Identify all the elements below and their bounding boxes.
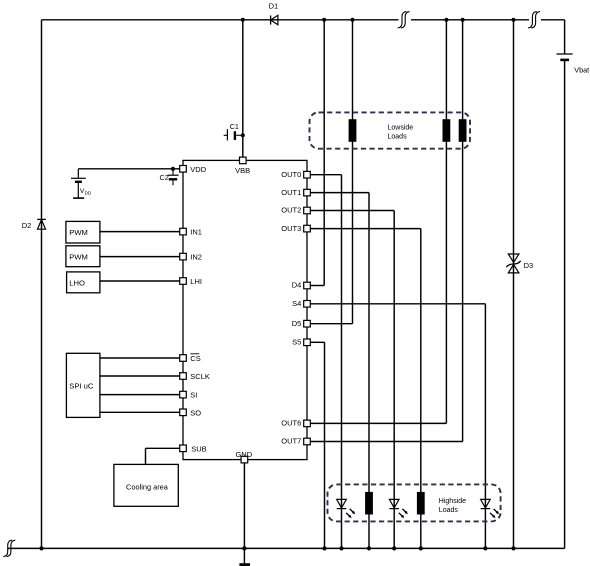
junction bottom rail D3 bbox=[511, 546, 515, 550]
capacitor C1 bbox=[224, 122, 242, 141]
diode D1 bbox=[269, 2, 279, 25]
wire VDD bbox=[78, 168, 179, 170]
svg-text:GND: GND bbox=[235, 450, 252, 459]
pin VBB bbox=[235, 157, 250, 175]
wire OUT6 net bbox=[310, 20, 446, 424]
wire OUT1 net bbox=[310, 193, 369, 549]
wire LHI bbox=[100, 280, 180, 282]
lowside load bar 1 (D5 line) bbox=[349, 119, 357, 142]
svg-text:VBB: VBB bbox=[235, 166, 250, 175]
wire OUT7 net bbox=[310, 20, 462, 442]
wire S5 net bbox=[310, 342, 324, 548]
wire S4 net bbox=[310, 304, 485, 549]
junction bottom rail left rail bbox=[39, 546, 43, 550]
svg-text:Vbat: Vbat bbox=[574, 65, 589, 74]
svg-text:S4: S4 bbox=[292, 299, 301, 308]
svg-text:OUT6: OUT6 bbox=[281, 419, 301, 428]
pin SO bbox=[180, 408, 202, 417]
pin VDD bbox=[180, 165, 207, 174]
pin OUT7 bbox=[281, 437, 310, 446]
junction bottom rail S5 bbox=[322, 546, 326, 550]
supply VDD source bbox=[71, 169, 92, 198]
wire bottom rail bbox=[8, 547, 565, 549]
svg-text:PWM: PWM bbox=[69, 252, 88, 261]
junction bottom rail GND bbox=[242, 546, 246, 550]
wire SO bbox=[100, 411, 180, 413]
wire IN2 bbox=[100, 256, 180, 258]
break mark bottom rail bbox=[3, 540, 15, 556]
svg-text:Highside: Highside bbox=[439, 498, 466, 505]
svg-text:SCLK: SCLK bbox=[190, 372, 210, 381]
lowside load bar 3 (OUT7 line) bbox=[459, 119, 467, 142]
pin OUT0 bbox=[281, 170, 310, 179]
battery Vbat bbox=[557, 54, 590, 74]
svg-text:D2: D2 bbox=[22, 221, 32, 230]
highside load bar 4 (OUT3 line) bbox=[417, 492, 425, 515]
break mark top rail right bbox=[528, 12, 540, 28]
junction C2 node bbox=[171, 167, 175, 171]
diode D2 bbox=[22, 219, 46, 230]
svg-text:OUT1: OUT1 bbox=[281, 188, 301, 197]
block PWM 1 bbox=[66, 221, 100, 243]
wire IN1 bbox=[100, 231, 180, 233]
svg-text:OUT3: OUT3 bbox=[281, 224, 301, 233]
highside LED load 3 (OUT2 line) bbox=[389, 499, 408, 518]
svg-text:Cooling area: Cooling area bbox=[126, 483, 169, 492]
highside LED load 1 (OUT0 line) bbox=[337, 499, 356, 518]
svg-text:SO: SO bbox=[190, 408, 201, 417]
svg-text:OUT7: OUT7 bbox=[281, 437, 301, 446]
junction C1 node bbox=[241, 133, 245, 137]
wire OUT0 net bbox=[310, 175, 341, 549]
wire OUT3 net bbox=[310, 229, 421, 549]
svg-text:SUB: SUB bbox=[191, 444, 206, 453]
junction bottom rail OUT1 bbox=[367, 546, 371, 550]
svg-text:IN1: IN1 bbox=[190, 228, 202, 237]
wire D4 net bbox=[310, 20, 324, 286]
pin OUT3 bbox=[281, 224, 310, 233]
svg-text:S5: S5 bbox=[292, 338, 301, 347]
svg-text:Loads: Loads bbox=[439, 507, 459, 514]
wire CS bbox=[100, 357, 180, 359]
svg-text:OUT2: OUT2 bbox=[281, 206, 301, 215]
block LHO bbox=[67, 272, 100, 293]
svg-text:D4: D4 bbox=[292, 281, 302, 290]
pin SUB bbox=[180, 444, 207, 453]
svg-text:PWM: PWM bbox=[69, 228, 88, 237]
wire SUB bbox=[146, 448, 180, 464]
junction top rail OUT7 line bbox=[461, 18, 465, 22]
wire D5 net bbox=[310, 20, 352, 324]
pin D4 bbox=[292, 281, 311, 290]
svg-text:SPI uC: SPI uC bbox=[69, 382, 94, 391]
pin LHI bbox=[180, 277, 202, 286]
wire VBB vertical bbox=[242, 20, 244, 158]
wire SI bbox=[100, 394, 180, 396]
block PWM 2 bbox=[66, 246, 100, 267]
pin S4 bbox=[292, 299, 310, 308]
junction top rail D4 line bbox=[322, 18, 326, 22]
wire top rail bbox=[42, 19, 565, 21]
svg-text:LHO: LHO bbox=[69, 278, 85, 287]
svg-text:OUT0: OUT0 bbox=[281, 170, 301, 179]
svg-text:Loads: Loads bbox=[388, 134, 408, 141]
junction bottom rail OUT0 bbox=[339, 546, 343, 550]
svg-text:IN2: IN2 bbox=[190, 253, 202, 262]
junction top rail OUT6 line bbox=[444, 18, 448, 22]
junction bottom rail OUT3 bbox=[419, 546, 423, 550]
block SPI uC bbox=[66, 353, 100, 417]
highside LED load 5 (S4 line) bbox=[481, 499, 500, 518]
svg-text:C2: C2 bbox=[160, 173, 169, 182]
wire D3 net bbox=[513, 20, 515, 549]
highside loads dashed box bbox=[328, 484, 501, 521]
pin IN1 bbox=[180, 228, 202, 237]
pin D5 bbox=[292, 319, 311, 328]
pin OUT1 bbox=[281, 188, 310, 197]
svg-text:LHI: LHI bbox=[190, 277, 202, 286]
junction GND bottom rail bbox=[242, 546, 246, 550]
junction top rail D3 line bbox=[511, 18, 515, 22]
junction top rail VBB bbox=[241, 18, 245, 22]
wire SCLK bbox=[100, 375, 180, 377]
junction bottom rail S4 bbox=[483, 546, 487, 550]
pin S5 bbox=[292, 338, 310, 347]
capacitor C2 bbox=[160, 170, 179, 185]
highside load bar 2 (OUT1 line) bbox=[365, 492, 373, 515]
pin CS bbox=[180, 354, 201, 363]
op-amp U1 (driver IC body) bbox=[183, 160, 307, 459]
pin OUT6 bbox=[281, 419, 310, 428]
break mark top rail left bbox=[398, 12, 410, 28]
pin SI bbox=[180, 391, 198, 400]
pin SCLK bbox=[180, 372, 210, 381]
junction top rail D5 line bbox=[350, 18, 354, 22]
diode D3 bbox=[506, 254, 533, 273]
svg-text:C1: C1 bbox=[230, 122, 239, 131]
svg-text:D5: D5 bbox=[292, 319, 302, 328]
svg-text:SI: SI bbox=[190, 391, 197, 400]
pin IN2 bbox=[180, 253, 202, 262]
svg-text:DD: DD bbox=[85, 190, 92, 195]
block Cooling area bbox=[114, 464, 178, 506]
svg-text:D1: D1 bbox=[269, 2, 279, 11]
wire GND vertical bbox=[243, 463, 245, 564]
lowside load bar 2 (OUT6 line) bbox=[443, 119, 451, 142]
svg-text:Lowside: Lowside bbox=[388, 125, 414, 132]
junction bottom rail OUT2 bbox=[392, 546, 396, 550]
ground symbol bbox=[239, 563, 250, 566]
svg-text:D3: D3 bbox=[524, 261, 534, 270]
svg-text:CS: CS bbox=[190, 354, 200, 363]
wire right rail (Vbat branch) bbox=[564, 20, 566, 549]
lowside loads dashed box bbox=[310, 112, 471, 148]
wire left rail bbox=[41, 20, 43, 549]
pin OUT2 bbox=[281, 206, 310, 215]
svg-text:VDD: VDD bbox=[190, 165, 206, 174]
wire OUT2 net bbox=[310, 211, 394, 549]
pin GND bbox=[235, 450, 252, 463]
